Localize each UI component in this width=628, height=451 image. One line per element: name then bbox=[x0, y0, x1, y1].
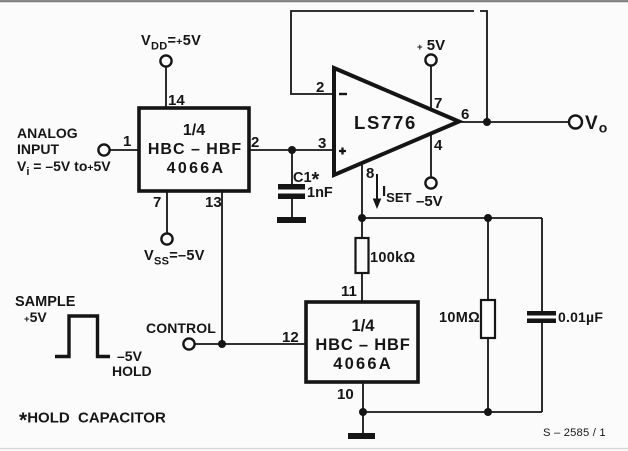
node pin8 junction bbox=[358, 214, 366, 222]
wire output to Vo bbox=[459, 121, 568, 123]
svg-text:13: 13 bbox=[205, 194, 222, 211]
svg-text:1: 1 bbox=[123, 133, 131, 150]
node output bbox=[483, 118, 491, 126]
svg-text:0.01µF: 0.01µF bbox=[558, 309, 603, 325]
svg-text:HBC – HBF: HBC – HBF bbox=[315, 336, 410, 354]
terminal +5V bbox=[425, 54, 436, 65]
svg-text:7: 7 bbox=[434, 95, 442, 112]
IC U3 1/4 HBC-HBF 4066A bbox=[306, 302, 418, 382]
wire pin 7 to VSS bbox=[166, 191, 168, 233]
wire control to pin 12 bbox=[195, 343, 306, 345]
svg-text:2: 2 bbox=[251, 134, 259, 151]
node control junction bbox=[218, 340, 226, 348]
terminal Vo bbox=[569, 116, 582, 129]
svg-text:10: 10 bbox=[337, 386, 354, 403]
svg-text:100kΩ: 100kΩ bbox=[370, 250, 415, 266]
svg-text:11: 11 bbox=[341, 283, 357, 300]
wire bottom rail bbox=[363, 411, 542, 413]
svg-text:8: 8 bbox=[366, 165, 374, 182]
terminal VSS bbox=[161, 233, 172, 244]
wire pin 4 op-amp bbox=[430, 133, 432, 177]
terminal CONTROL bbox=[183, 338, 194, 349]
ground C1 bbox=[277, 217, 306, 223]
wire feedback pin2 bbox=[291, 11, 487, 122]
wire analog input to pin 1 bbox=[110, 149, 139, 151]
svg-text:INPUT: INPUT bbox=[17, 141, 59, 157]
svg-text:–5V: –5V bbox=[416, 193, 443, 210]
op-amp U2 LS776 bbox=[334, 68, 459, 175]
svg-text:ANALOG: ANALOG bbox=[17, 125, 78, 141]
svg-text:4066A: 4066A bbox=[167, 160, 226, 177]
svg-text:LS776: LS776 bbox=[354, 112, 417, 133]
svg-text:10MΩ: 10MΩ bbox=[439, 310, 480, 326]
arrow ISET bbox=[373, 174, 382, 209]
node 10M top bbox=[484, 214, 492, 222]
resistor R1 100k bbox=[356, 218, 369, 302]
svg-text:4: 4 bbox=[434, 137, 443, 154]
svg-text:–5V: –5V bbox=[117, 348, 143, 364]
ground U3 bbox=[348, 433, 375, 439]
svg-text:3: 3 bbox=[318, 135, 326, 152]
wire pin 8 down to node bbox=[361, 162, 363, 218]
svg-text:1/4: 1/4 bbox=[352, 317, 376, 335]
wire pin 10 to ground and bottom rail bbox=[362, 382, 364, 433]
svg-text:4066A: 4066A bbox=[333, 355, 393, 373]
wire U1 pin2 to op-amp pin3 bbox=[249, 149, 334, 151]
node 10M bottom bbox=[484, 408, 492, 416]
wire pin 13 down to control junction bbox=[221, 191, 223, 344]
svg-text:HOLD: HOLD bbox=[112, 363, 152, 379]
resistor R2 10M bbox=[481, 218, 495, 412]
label ANALOG INPUT Vi bbox=[17, 125, 111, 178]
svg-text:HBC – HBF: HBC – HBF bbox=[148, 141, 242, 158]
svg-text:7: 7 bbox=[153, 194, 161, 211]
node pin10 bbox=[359, 408, 367, 416]
terminal ANALOG INPUT bbox=[98, 144, 109, 155]
waveform SAMPLE/HOLD pulse bbox=[55, 316, 110, 357]
terminal -5V bbox=[425, 177, 436, 188]
svg-text:1nF: 1nF bbox=[307, 185, 333, 201]
node C1 junction bbox=[288, 146, 296, 154]
capacitor C1 1nF bbox=[278, 150, 305, 218]
svg-text:CONTROL: CONTROL bbox=[146, 320, 216, 336]
svg-text:SAMPLE: SAMPLE bbox=[15, 294, 76, 310]
capacitor C2 0.01uF bbox=[527, 218, 556, 412]
terminal VDD bbox=[160, 55, 171, 66]
svg-text:S – 2585 / 1: S – 2585 / 1 bbox=[543, 427, 606, 439]
wire pin 7 op-amp bbox=[430, 66, 432, 110]
svg-text:6: 6 bbox=[461, 106, 469, 123]
wire node to RC network bbox=[362, 217, 542, 219]
IC U1 1/4 HBC-HBF 4066A bbox=[139, 108, 249, 191]
svg-text:1/4: 1/4 bbox=[183, 122, 205, 139]
wire VDD to pin 14 bbox=[165, 67, 167, 108]
